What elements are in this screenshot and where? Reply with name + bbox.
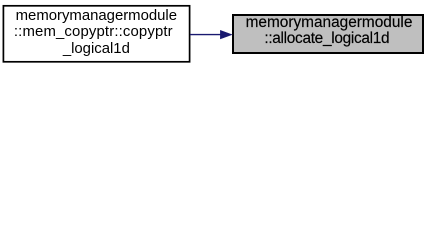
node: current function box (filled grey) memorymanagermodule::allocate_logical1d (233, 15, 423, 53)
arrowhead (220, 30, 232, 38)
wire: arrow shaft (190, 34, 222, 36)
label: caller box text (3, 5, 191, 57)
node: caller box memorymanagermodule::mem_copyptr::copyptr_logical1d (3, 6, 189, 62)
label: current function box text (232, 14, 424, 48)
